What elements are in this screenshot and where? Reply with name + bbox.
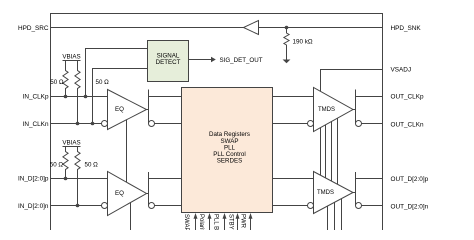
wire buffer output to HPD_SNK pin: [259, 27, 383, 29]
inversion bubble TMDS2 output n: [356, 203, 362, 209]
wire bias bus line 4: [337, 118, 339, 184]
svg-text:50 Ω: 50 Ω: [96, 79, 110, 86]
wire TMDS1 out n to OUT_CLKn: [362, 123, 383, 125]
resistor R2 50 Ohm (VBIAS to IN_CLKn): [75, 61, 80, 124]
wire HPD_SRC to buffer apex: [51, 27, 244, 29]
VBIAS rail 1: [63, 60, 81, 62]
wire IN_D[2:0]p: [51, 178, 108, 180]
wire TMDS1 out p to OUT_CLKp: [356, 96, 383, 98]
svg-text:OUT_D[2:0]p: OUT_D[2:0]p: [391, 176, 429, 183]
wire core to TMDS2 n: [273, 205, 308, 207]
svg-text:SERDES: SERDES: [217, 158, 242, 165]
signal detect block: [148, 41, 189, 82]
svg-text:VSADJ: VSADJ: [391, 67, 412, 74]
svg-text:190 kΩ: 190 kΩ: [293, 38, 313, 45]
wire TMDS2 apex to bar: [353, 192, 356, 194]
svg-text:50 Ω: 50 Ω: [50, 162, 64, 169]
svg-text:EQ: EQ: [115, 190, 124, 197]
wire bias bus below TMDS2 line 1: [327, 206, 329, 230]
node dot R4/IN_Dn: [76, 204, 80, 208]
wire TMDS1 output bar: [355, 90, 357, 124]
resistor R4 50 Ohm (VBIAS to IN_D n): [75, 147, 80, 206]
wire core to TMDS2 p: [273, 178, 314, 180]
svg-text:PWR DN: PWR DN: [240, 214, 246, 230]
ground arrow: [283, 60, 291, 64]
wire EQ2 underside going down: [130, 203, 132, 231]
svg-text:IN_D[2:0]p: IN_D[2:0]p: [18, 176, 49, 183]
wire EQ1 out n to core: [155, 123, 182, 125]
svg-text:OUT_D[2:0]n: OUT_D[2:0]n: [391, 204, 429, 211]
VBIAS rail 2: [63, 146, 81, 148]
wire EQ2 output bar: [148, 172, 150, 206]
node dot R2/IN_CLKn: [76, 122, 80, 126]
svg-text:HPD_SRC: HPD_SRC: [18, 25, 49, 32]
wire core to TMDS1 p: [273, 96, 314, 98]
wire EQ1 output bar: [148, 90, 150, 124]
inversion bubble EQ1 input n: [102, 121, 108, 127]
wire TMDS2 out n to OUT_D[2:0]n: [362, 205, 383, 207]
svg-text:VBIAS: VBIAS: [62, 54, 80, 61]
wire core to TMDS1 n: [273, 123, 308, 125]
wire EQ2 out n to core: [155, 205, 182, 207]
wire EQ1 out p to core: [149, 96, 182, 98]
resistor R1 50 Ohm (VBIAS to IN_CLKp): [63, 61, 68, 97]
chip boundary: [51, 14, 383, 240]
inversion bubble EQ2 input n: [102, 203, 108, 209]
control PWR DN: wire and arrowhead: [250, 219, 252, 231]
svg-text:Polarity: Polarity: [198, 214, 204, 230]
svg-text:DETECT: DETECT: [156, 59, 181, 66]
inversion bubble TMDS2 input n: [308, 203, 314, 209]
resistor R5 190 kOhm: [284, 28, 289, 60]
inversion bubble TMDS1 input n: [308, 121, 314, 127]
svg-text:50 Ω: 50 Ω: [85, 162, 99, 169]
wire bias bus line 3: [331, 122, 333, 182]
svg-text:OUT_CLKn: OUT_CLKn: [391, 121, 424, 128]
svg-text:IN_D[2:0]n: IN_D[2:0]n: [18, 203, 49, 210]
wire SIG_DET_OUT: [189, 59, 212, 61]
control Polarity: wire and arrowhead: [209, 219, 211, 231]
op-amp EQ1 (clock equalizer): [108, 90, 147, 130]
inversion bubble EQ1 output n: [149, 121, 155, 127]
svg-text:STBY: STBY: [227, 214, 233, 230]
node dot signal-detect tap A on IN_CLKp: [84, 95, 88, 99]
control STBY: wire and arrowhead: [237, 219, 239, 231]
wire IN_D[2:0]n: [51, 205, 102, 207]
svg-text:PLL BW: PLL BW: [213, 214, 219, 230]
wire EQ2 apex to bar: [147, 193, 149, 195]
svg-text:SWAP: SWAP: [183, 214, 189, 230]
core block: data registers / SWAP / PLL / PLL control / SERDES: [182, 88, 273, 213]
wire EQ1 underside to EQ2 topside: [126, 120, 128, 182]
wire EQ2 out p to core: [149, 178, 182, 180]
svg-text:TMDS: TMDS: [317, 190, 334, 196]
wire tap A to signal detect: [86, 49, 148, 97]
wire VSADJ: [321, 70, 383, 92]
driver TMDS1 (clock): [314, 88, 354, 132]
node dot signal-detect tap B on IN_CLKn: [91, 122, 95, 126]
arrowhead SIG_DET_OUT: [211, 57, 216, 62]
node junction on HPD net: [285, 26, 289, 30]
control PLL BW: wire and arrowhead: [224, 219, 226, 231]
svg-text:OUT_CLKp: OUT_CLKp: [391, 94, 424, 101]
node dot R1/IN_CLKp: [64, 95, 68, 99]
wire IN_CLKn: [51, 123, 102, 125]
buffer U1 (HPD, points left): [244, 21, 259, 35]
svg-text:IN_CLKn: IN_CLKn: [23, 121, 49, 128]
svg-text:HPD_SNK: HPD_SNK: [391, 25, 422, 32]
svg-text:50 Ω: 50 Ω: [50, 79, 64, 86]
resistor R3 50 Ohm (VBIAS to IN_D p): [63, 147, 68, 179]
wire bias bus TMDS1 to TMDS2 line 1: [320, 128, 322, 176]
op-amp EQ2 (data equalizer): [108, 172, 147, 216]
wire TMDS1 apex to bar: [353, 109, 356, 111]
control SWAP: wire and arrowhead into core bottom: [195, 219, 197, 231]
svg-text:TMDS: TMDS: [318, 107, 335, 113]
wire bias bus below TMDS2 line 3: [341, 199, 343, 230]
svg-text:SIG_DET_OUT: SIG_DET_OUT: [220, 57, 263, 64]
wire EQ1 apex to bar: [147, 109, 149, 111]
wire TMDS2 output bar: [355, 172, 357, 206]
wire IN_CLKp: [51, 96, 108, 98]
inversion bubble TMDS1 output n: [356, 121, 362, 127]
wire TMDS2 out p to OUT_D[2:0]p: [356, 178, 383, 180]
node dot R3/IN_Dp: [64, 177, 68, 181]
wire tap B to signal detect: [93, 69, 148, 124]
wire bias bus below TMDS2 line 2: [334, 202, 336, 230]
inversion bubble EQ2 output n: [149, 203, 155, 209]
driver TMDS2 (data): [314, 172, 354, 214]
svg-text:EQ: EQ: [115, 106, 124, 113]
svg-text:VBIAS: VBIAS: [62, 140, 80, 147]
svg-text:IN_CLKp: IN_CLKp: [23, 94, 49, 101]
wire bias bus line 2: [325, 125, 327, 178]
